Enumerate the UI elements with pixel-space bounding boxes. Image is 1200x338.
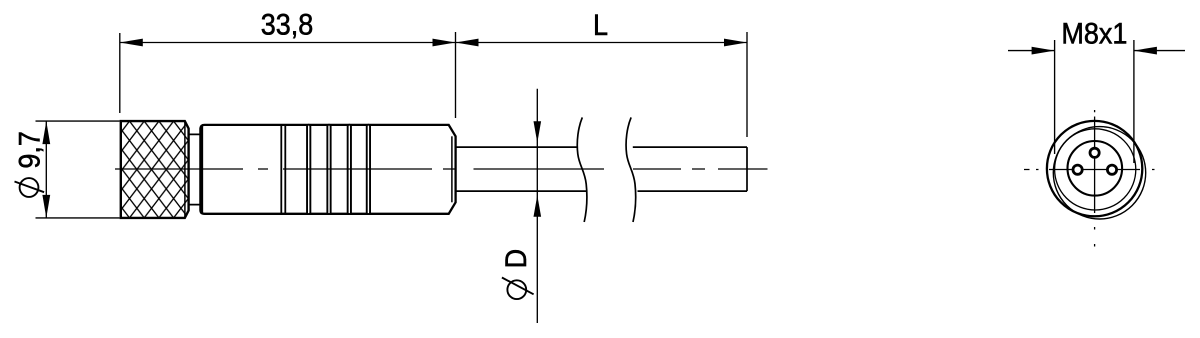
dimension M8x1 extension lines (1055, 40, 1134, 163)
body left edge inner line (201, 125, 203, 213)
dimension L arrow left (456, 39, 479, 47)
dimension M8x1 arrow left (1032, 47, 1055, 55)
dimension dia 9,7 diameter symbol (15, 178, 45, 197)
svg-text:9,7: 9,7 (13, 131, 47, 169)
face view eccentric chamfer circle (1053, 127, 1145, 219)
dimension dia 9,7 arrow top (42, 121, 50, 144)
svg-text:L: L (593, 9, 608, 43)
dimension dia D arrow top (534, 121, 542, 143)
dimension 33,8 arrow left (120, 39, 143, 47)
cable break curve 2 (626, 117, 636, 222)
rib ring 2 (327, 125, 330, 214)
dimension dia D line (536, 89, 538, 323)
pin right (1107, 165, 1116, 174)
face view insert circle (1068, 141, 1123, 196)
rib ring 4 (367, 125, 370, 214)
knurled nut inner edge line (184, 122, 186, 218)
dimension dia 9,7 arrow bottom (42, 195, 50, 218)
dimension L arrow right (724, 39, 747, 47)
dimension dia D arrow bottom (534, 195, 542, 217)
svg-text:33,8: 33,8 (261, 8, 314, 42)
dimension dia 9,7 extension lines (36, 121, 120, 218)
dimension dia D diameter symbol (502, 278, 534, 300)
sleeve boundary lines (281, 125, 285, 214)
dimension 33,8 extension lines (120, 32, 456, 118)
dimension M8x1 arrow right (1134, 47, 1157, 55)
face view thread circle (1055, 129, 1136, 210)
dimension dia 9,7 line (45, 121, 47, 218)
svg-text:M8x1: M8x1 (1061, 17, 1127, 51)
knurled nut outline (121, 121, 189, 218)
dimension 33,8 arrow right (433, 39, 456, 47)
dimension 33,8 line (120, 42, 456, 44)
pin left (1073, 165, 1082, 174)
rib ring 3 (348, 125, 351, 214)
svg-text:D: D (500, 249, 534, 268)
connector body (200, 125, 455, 214)
centerline side view (115, 168, 768, 170)
neck groove between nut and body (189, 134, 201, 204)
face view crosshair horizontal (1024, 169, 1155, 171)
knurled nut knurl fill (119, 120, 191, 219)
body chamfer edge line (451, 136, 453, 202)
dimension M8x1 line (1008, 50, 1185, 52)
cable break curve 1 (577, 117, 587, 222)
cable outline (456, 147, 747, 191)
pin top (1090, 148, 1099, 157)
rib ring 1 (307, 125, 310, 214)
dimension L line (456, 42, 748, 44)
face view crosshair vertical (1094, 110, 1096, 247)
face view outer circle (1047, 121, 1142, 216)
dimension L extension line right (746, 32, 748, 137)
